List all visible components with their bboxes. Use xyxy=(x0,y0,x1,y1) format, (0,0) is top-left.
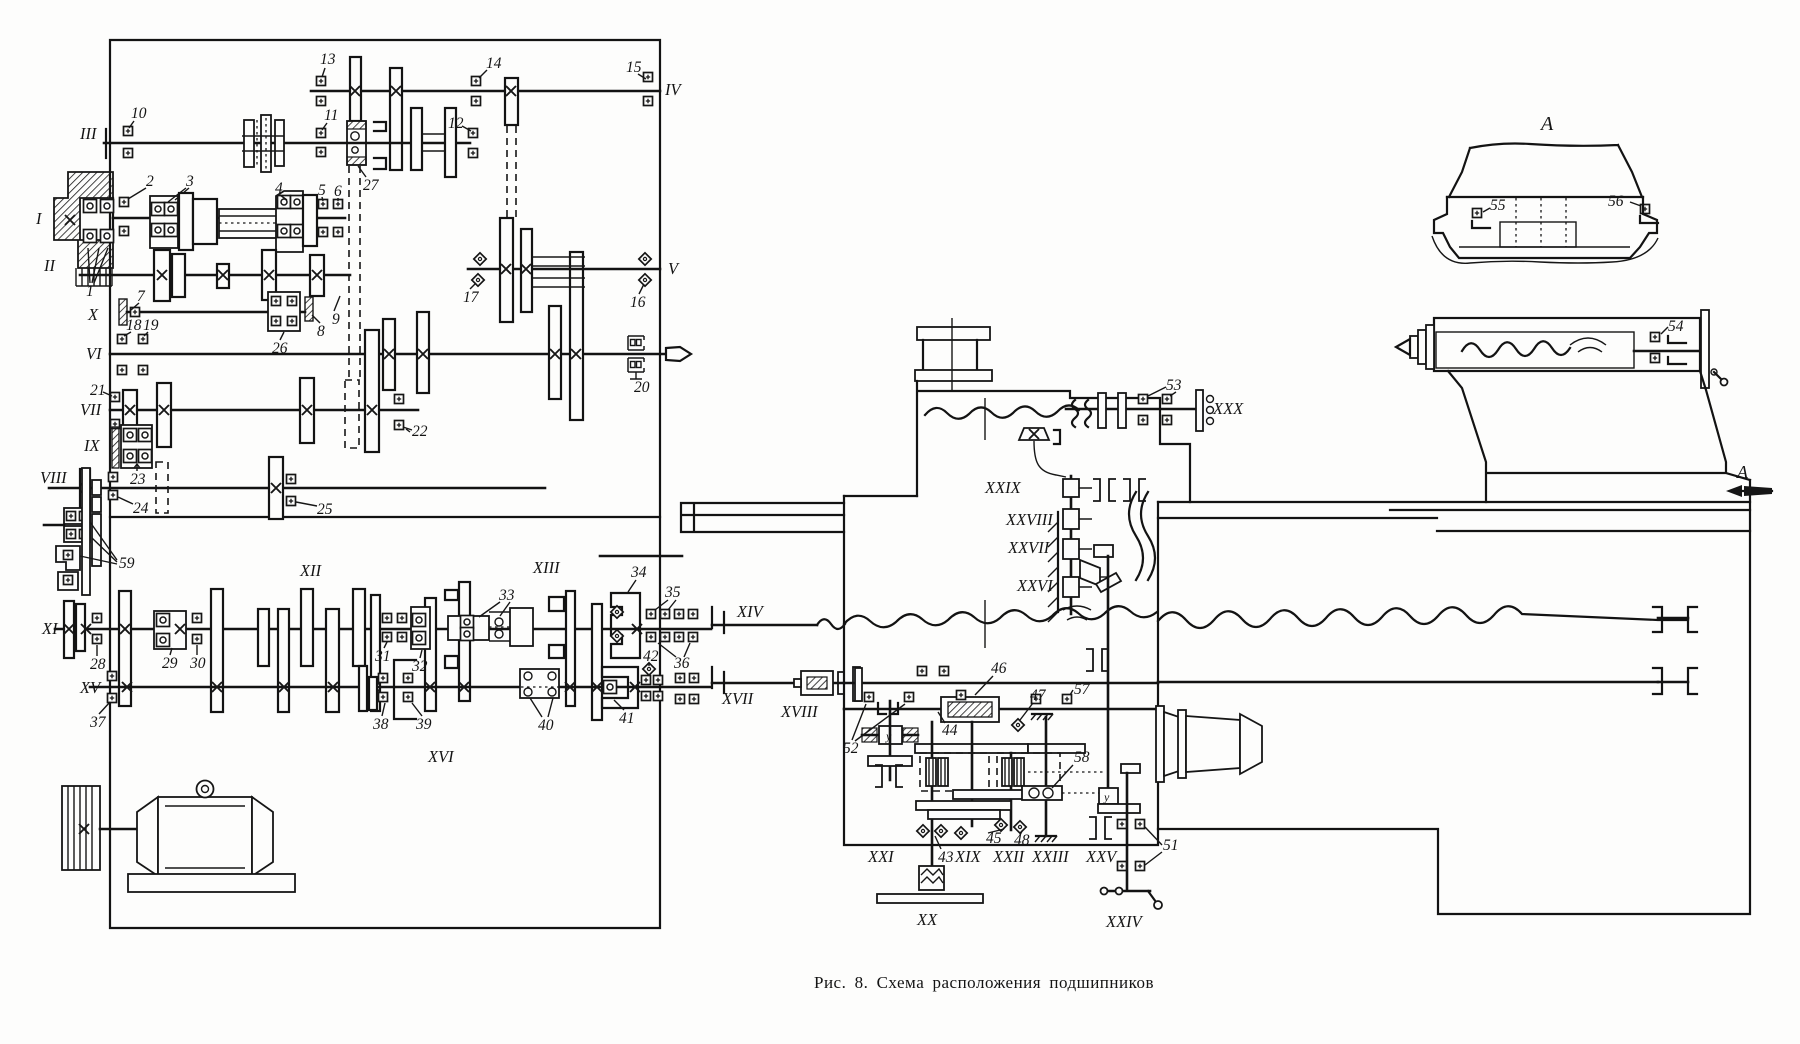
label 36 xyxy=(658,643,690,672)
bearing 56 xyxy=(1640,205,1658,224)
clutch pack on III xyxy=(242,115,284,172)
label 10 xyxy=(129,105,147,128)
label 14 xyxy=(479,55,502,78)
label 41 xyxy=(614,700,635,727)
svg-text:42: 42 xyxy=(643,648,659,665)
shaft X xyxy=(127,311,305,314)
leadscrew right wavy xyxy=(1158,606,1688,628)
x-mark IV gear xyxy=(350,86,360,96)
cross feed clamp xyxy=(1019,428,1060,444)
gear row XII xyxy=(211,582,602,720)
label 24 xyxy=(118,497,149,517)
overload clutch on XVII xyxy=(794,667,860,701)
bed lower outline xyxy=(1158,480,1750,914)
label 56 xyxy=(1608,193,1641,210)
shaft XX vertical xyxy=(971,722,974,826)
x-marks on VI xyxy=(384,349,581,359)
shaft XXV vertical xyxy=(1107,556,1110,806)
leadscrew end brackets xyxy=(1653,607,1697,632)
label 58 xyxy=(1052,749,1090,788)
bearing 30 xyxy=(193,614,202,644)
bearings 5 6 xyxy=(319,200,343,237)
label 47 xyxy=(1020,687,1047,720)
svg-text:18: 18 xyxy=(126,317,142,334)
bearing block 29 xyxy=(154,611,186,649)
svg-text:12: 12 xyxy=(448,115,464,132)
bearing 10 xyxy=(124,127,133,158)
x-marks on XV xyxy=(122,682,602,692)
bearings 51 xyxy=(1118,820,1145,871)
motor base xyxy=(128,874,295,892)
bearing 16 xyxy=(639,253,651,286)
shift rod dashed from clutch 27 xyxy=(349,166,360,380)
bearing 24 xyxy=(109,473,118,500)
apron box xyxy=(844,496,1158,845)
gears on II xyxy=(154,250,324,301)
label 46 xyxy=(975,660,1007,695)
block 33 xyxy=(448,608,533,646)
svg-text:A: A xyxy=(1736,462,1749,482)
coupler block 32 xyxy=(411,607,430,649)
bearings 18 19 xyxy=(118,335,148,375)
svg-text:Рис. 8. Схема расположения под: Рис. 8. Схема расположения подшипников xyxy=(814,973,1154,992)
svg-text:XXX: XXX xyxy=(1212,399,1244,418)
svg-text:34: 34 xyxy=(630,564,647,581)
feed rod through apron xyxy=(844,682,1158,685)
label 45 xyxy=(986,829,1004,847)
clutch stack 59 xyxy=(44,508,90,590)
bearing 28 xyxy=(93,614,102,644)
center tip xyxy=(1396,339,1410,355)
gear on I right xyxy=(303,195,317,246)
svg-text:y: y xyxy=(1103,790,1110,804)
label 1 with leaders xyxy=(86,248,108,300)
shaft XXX xyxy=(1066,408,1197,411)
svg-text:36: 36 xyxy=(673,655,690,672)
bearing 14 xyxy=(472,77,481,106)
bearing 12 xyxy=(469,129,478,158)
label 2 xyxy=(128,173,154,199)
svg-text:51: 51 xyxy=(1163,837,1179,854)
label 21 xyxy=(90,382,112,399)
label 52 xyxy=(843,704,905,757)
svg-text:IV: IV xyxy=(664,80,682,99)
bed rails right of apron xyxy=(1158,502,1750,531)
svg-text:59: 59 xyxy=(119,555,135,572)
svg-text:17: 17 xyxy=(463,289,480,306)
label 35 xyxy=(655,584,681,610)
handwheel cone xyxy=(1156,706,1262,782)
bearing 17 xyxy=(472,253,486,286)
label 33 xyxy=(479,587,515,617)
svg-text:27: 27 xyxy=(363,177,380,194)
clutch sleeve on I xyxy=(219,209,280,238)
gear bar on XXI xyxy=(868,756,912,766)
label 30 xyxy=(189,645,206,672)
bearings 31 flanking xyxy=(383,614,407,642)
bevel gear pair xyxy=(1080,545,1121,592)
label 20 xyxy=(634,379,650,396)
bearings right of 42 xyxy=(676,674,699,704)
shaft VII xyxy=(110,409,418,412)
svg-text:37: 37 xyxy=(89,714,107,731)
label 31 xyxy=(374,640,391,665)
label 25 xyxy=(296,501,333,518)
overrunning clutch 58 xyxy=(1022,786,1062,800)
gears on XI left xyxy=(64,591,131,706)
bearings 44 xyxy=(918,667,966,700)
shifter bracket 38 39 xyxy=(379,660,417,719)
ground hatch XXIII xyxy=(1035,836,1057,842)
x-marks xyxy=(64,624,130,634)
svg-text:6: 6 xyxy=(334,183,342,200)
label 7 xyxy=(131,288,146,310)
svg-text:53: 53 xyxy=(1166,377,1182,394)
bracket pair upper apron xyxy=(1093,479,1146,501)
cross slide nut blocks xyxy=(1098,393,1126,428)
svg-text:39: 39 xyxy=(415,716,432,733)
shaft XV xyxy=(90,686,711,689)
leadscrew through apron xyxy=(844,708,1158,711)
svg-text:8: 8 xyxy=(317,323,325,340)
quill rings xyxy=(1410,325,1434,369)
bearings 42 xyxy=(642,663,663,701)
svg-text:29: 29 xyxy=(162,655,178,672)
bearing 21 xyxy=(111,393,120,429)
sleeve on V xyxy=(532,257,585,287)
svg-text:XXIV: XXIV xyxy=(1105,912,1144,931)
bracket pair mid xyxy=(1086,649,1109,671)
svg-text:VII: VII xyxy=(80,400,103,419)
brackets low xyxy=(1089,817,1112,839)
gear on VIII left xyxy=(80,469,101,516)
bearing 20 xyxy=(628,336,644,379)
svg-text:XV: XV xyxy=(79,678,102,697)
shaft II line xyxy=(80,274,350,277)
spindle clutch bearings xyxy=(84,200,114,243)
bearing 2 xyxy=(120,198,129,236)
svg-text:A: A xyxy=(1539,113,1554,135)
shift rod dashed to shaft V gear xyxy=(507,126,516,218)
svg-text:I: I xyxy=(35,209,43,228)
svg-text:XIV: XIV xyxy=(736,602,765,621)
label 57 xyxy=(1070,681,1091,698)
svg-text:XXI: XXI xyxy=(867,847,895,866)
svg-text:XII: XII xyxy=(299,561,323,580)
bracket 34 xyxy=(611,593,642,658)
feed output stub xyxy=(600,555,682,558)
svg-text:11: 11 xyxy=(324,107,338,124)
svg-text:23: 23 xyxy=(130,471,146,488)
detail A torn bottom edge xyxy=(1432,236,1658,263)
shaft XIX vertical xyxy=(931,722,934,868)
x-marks on VII xyxy=(125,405,377,415)
label 40 xyxy=(530,698,554,734)
wall bearing left of X xyxy=(119,299,127,325)
svg-text:XXII: XXII xyxy=(992,847,1026,866)
vertical bevel shaft xyxy=(1070,476,1073,614)
svg-text:IX: IX xyxy=(83,436,100,455)
shaft III xyxy=(104,129,470,158)
label 32 xyxy=(411,650,428,675)
motor pulley xyxy=(62,786,100,870)
svg-text:38: 38 xyxy=(372,716,389,733)
gears on VII xyxy=(123,330,379,452)
bearing block 40 xyxy=(515,669,565,698)
svg-text:XXV: XXV xyxy=(1085,847,1118,866)
bearing 22 xyxy=(395,395,404,430)
svg-text:20: 20 xyxy=(634,379,650,396)
svg-text:10: 10 xyxy=(131,105,147,122)
shaft VI xyxy=(110,353,666,356)
label 8 xyxy=(312,315,325,340)
spindle clutch block xyxy=(54,172,113,286)
svg-text:21: 21 xyxy=(90,382,106,399)
label 13 xyxy=(320,51,336,77)
label 22 xyxy=(403,423,428,440)
label 34 xyxy=(628,564,647,592)
svg-text:47: 47 xyxy=(1030,687,1047,704)
hatched wall XXVI xyxy=(1048,512,1058,622)
bearing 52 group xyxy=(855,668,914,714)
svg-text:14: 14 xyxy=(486,55,502,72)
gear on VIII mid xyxy=(269,457,283,519)
svg-text:1: 1 xyxy=(86,283,94,300)
shaft XVII xyxy=(712,682,844,685)
svg-text:XVII: XVII xyxy=(721,689,755,708)
gears on VI xyxy=(383,252,583,420)
svg-text:41: 41 xyxy=(619,710,635,727)
friction clutch 27 xyxy=(347,121,366,165)
svg-text:XIII: XIII xyxy=(532,558,561,577)
gear on IV/III tall xyxy=(390,68,402,170)
svg-text:3: 3 xyxy=(185,173,194,190)
svg-text:V: V xyxy=(668,259,680,278)
svg-text:XI: XI xyxy=(41,619,59,638)
label 53 xyxy=(1148,377,1182,396)
shaft XXI vertical xyxy=(889,701,892,780)
label 28 xyxy=(90,645,106,673)
dashed link line xyxy=(1028,772,1105,793)
gear on IV xyxy=(350,57,361,121)
shaft XVII coupling ticks xyxy=(712,667,724,693)
svg-text:X: X xyxy=(87,305,99,324)
svg-text:52: 52 xyxy=(843,740,859,757)
svg-text:25: 25 xyxy=(317,501,333,518)
handle of XXX xyxy=(1196,390,1214,431)
svg-text:40: 40 xyxy=(538,717,554,734)
bracket 41 xyxy=(602,667,640,708)
svg-text:2: 2 xyxy=(146,173,154,190)
clutch cage right dashed xyxy=(997,753,1060,791)
detail A top break outline xyxy=(1447,144,1643,198)
svg-text:XIX: XIX xyxy=(954,847,982,866)
control wire to bevel xyxy=(1034,441,1066,477)
label 55 xyxy=(1483,197,1506,214)
long gear bar xyxy=(915,744,1085,753)
motor shaft xyxy=(100,828,137,831)
svg-text:16: 16 xyxy=(630,294,646,311)
halfnut 46 xyxy=(941,697,999,722)
svg-text:XXIII: XXIII xyxy=(1031,847,1070,866)
label 16 xyxy=(630,284,646,311)
tailstock screw xyxy=(1634,350,1701,353)
gearblock 3 xyxy=(150,196,178,248)
label 48 xyxy=(1014,831,1030,849)
label 12 xyxy=(448,115,471,132)
shaft XIV xyxy=(712,619,845,629)
bearing 53 xyxy=(1139,395,1172,425)
bearing 15 xyxy=(644,73,653,106)
saddle break wave xyxy=(925,398,1079,440)
view arrow A xyxy=(1726,462,1772,497)
label 9 xyxy=(332,296,340,328)
svg-text:13: 13 xyxy=(320,51,336,68)
svg-text:43: 43 xyxy=(938,849,954,866)
small gears on XV xyxy=(359,666,377,711)
svg-text:56: 56 xyxy=(1608,193,1624,210)
bearing 37 xyxy=(108,672,117,703)
clutch box on XXV xyxy=(1099,788,1118,804)
tailstock body xyxy=(1448,371,1750,502)
quill spring xyxy=(1462,338,1606,357)
x-mark xyxy=(506,86,516,96)
labels 18 19 xyxy=(124,317,159,336)
gears on bevel shaft xyxy=(1063,479,1092,597)
apron break wave xyxy=(844,600,1157,648)
shaft XXIV vertical xyxy=(1126,773,1129,889)
shaft XIV coupling ticks xyxy=(712,607,724,633)
shaft IV xyxy=(311,90,660,93)
clutch cage left dashed xyxy=(920,753,989,791)
bed bar left of apron xyxy=(681,503,844,532)
label 5 xyxy=(318,182,326,201)
shaft VIII xyxy=(49,487,545,490)
svg-text:9: 9 xyxy=(332,311,340,328)
x-mark spindle xyxy=(65,215,75,225)
label 51 xyxy=(1145,827,1179,865)
detail A guideway section xyxy=(1434,197,1657,258)
shaft I xyxy=(113,217,345,220)
bearing 47 xyxy=(1012,719,1024,731)
wall bearing 8 right of X xyxy=(305,297,313,321)
svg-text:31: 31 xyxy=(374,648,391,665)
svg-text:XX: XX xyxy=(916,910,938,929)
bearing 55 xyxy=(1472,209,1490,229)
block 26 on X xyxy=(268,292,300,331)
svg-text:5: 5 xyxy=(318,182,326,199)
shaft VI end arrow xyxy=(666,347,691,361)
svg-text:28: 28 xyxy=(90,656,106,673)
hooks near XIII xyxy=(445,590,564,668)
svg-text:44: 44 xyxy=(942,722,958,739)
worm drive xyxy=(862,726,918,744)
feed rod end brackets xyxy=(1653,668,1697,694)
gears on V xyxy=(500,218,532,322)
shaft XXII vertical xyxy=(1010,753,1013,830)
svg-text:VIII: VIII xyxy=(40,468,68,487)
dashed gear position on VII xyxy=(345,380,359,448)
S-joggles on XXX xyxy=(1072,400,1091,427)
svg-text:24: 24 xyxy=(133,500,149,517)
tailstock barrel xyxy=(1434,318,1700,371)
handle of XXIV xyxy=(1101,888,1163,910)
feed rod right xyxy=(1158,681,1658,684)
gear bars lower xyxy=(916,790,1028,819)
label 27 xyxy=(358,166,380,194)
gear on IV right xyxy=(505,78,518,125)
tailstock handwheel xyxy=(1701,310,1728,388)
label 38 xyxy=(372,703,389,733)
shaft V xyxy=(468,268,660,271)
label 54 xyxy=(1661,318,1684,335)
svg-text:XVI: XVI xyxy=(427,747,455,766)
bearing diamonds bottom row xyxy=(917,819,1026,839)
label 26 xyxy=(272,332,288,357)
gear bars on XXV xyxy=(1098,764,1140,813)
svg-text:54: 54 xyxy=(1668,318,1684,335)
x-mark xyxy=(271,483,281,493)
universal joint on XX xyxy=(919,866,944,890)
svg-text:33: 33 xyxy=(498,587,515,604)
gear on I xyxy=(179,193,193,250)
x-marks on II xyxy=(157,270,322,280)
svg-text:46: 46 xyxy=(991,660,1007,677)
bearing 11 xyxy=(317,129,326,157)
svg-text:7: 7 xyxy=(137,288,146,305)
bearings 35 row xyxy=(647,610,698,642)
svg-text:15: 15 xyxy=(626,59,642,76)
bearing 57 xyxy=(1032,695,1072,704)
label 39 xyxy=(412,703,432,733)
label 6 xyxy=(334,183,342,201)
electric motor M xyxy=(137,781,273,877)
svg-text:58: 58 xyxy=(1074,749,1090,766)
svg-text:XXVIII: XXVIII xyxy=(1005,510,1054,529)
svg-text:VI: VI xyxy=(86,344,103,363)
svg-text:II: II xyxy=(43,256,56,275)
x-mark xyxy=(80,483,90,493)
bearing 7 xyxy=(131,308,140,317)
label 44 xyxy=(938,712,958,739)
label 59 xyxy=(80,522,135,572)
bracket under XXI xyxy=(875,765,903,787)
gearblock 4 xyxy=(276,191,304,252)
svg-text:35: 35 xyxy=(664,584,681,601)
svg-text:XXVI: XXVI xyxy=(1016,576,1054,595)
label 43 xyxy=(935,836,954,866)
gear pair on III with flange xyxy=(374,108,456,177)
label 42 xyxy=(643,648,659,666)
svg-text:19: 19 xyxy=(143,317,159,334)
label 11 xyxy=(322,107,338,130)
rack bar xyxy=(877,894,983,903)
svg-text:57: 57 xyxy=(1074,681,1091,698)
gearbox housing box xyxy=(110,40,660,928)
svg-text:III: III xyxy=(79,124,98,143)
label 37 xyxy=(89,702,110,731)
saddle column xyxy=(915,318,1190,502)
bearing 54 xyxy=(1651,333,1687,365)
svg-text:55: 55 xyxy=(1490,197,1506,214)
svg-text:XXIX: XXIX xyxy=(984,478,1022,497)
ground hatch mid xyxy=(1031,714,1053,720)
label 4 xyxy=(275,180,287,200)
internal divider line xyxy=(110,516,660,518)
shaft XXIII vertical xyxy=(1045,717,1048,836)
label 3 xyxy=(168,173,194,202)
gear blank on I xyxy=(193,199,217,244)
